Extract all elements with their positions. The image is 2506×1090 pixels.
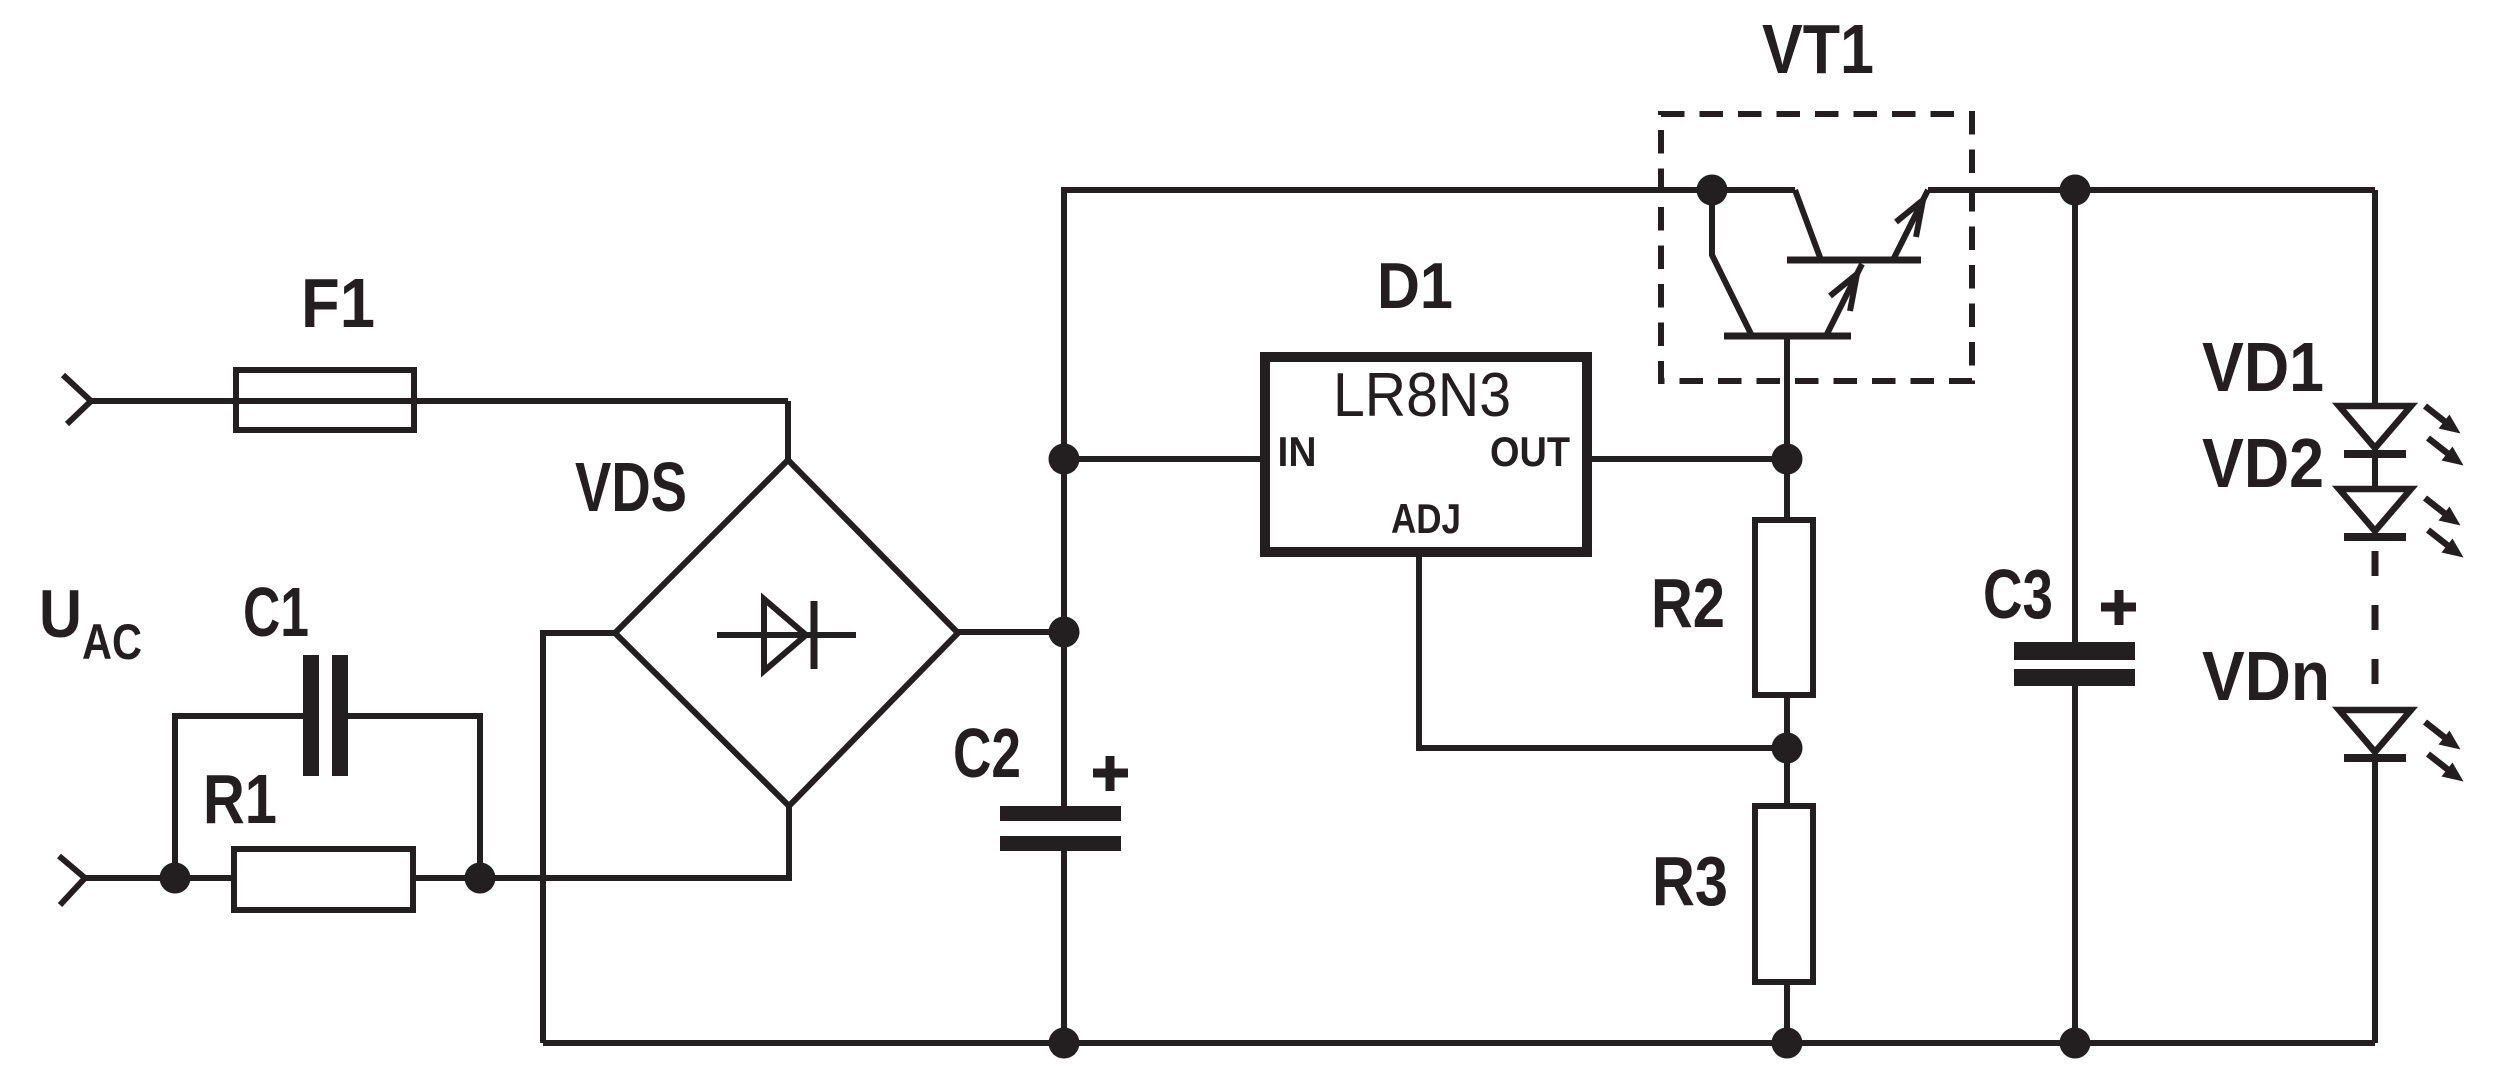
resistor R1 — [203, 760, 413, 910]
fuse F1 — [236, 264, 414, 430]
node R3 bottom rail — [1772, 1028, 1803, 1059]
wire ADJ pin — [1419, 552, 1787, 748]
regulator D1 LR8N3 — [1265, 249, 1587, 552]
svg-text:VDS: VDS — [575, 448, 687, 526]
resistor R2 — [1651, 458, 1813, 748]
capacitor C2 — [953, 714, 1128, 1043]
label UAC — [39, 576, 142, 670]
bottom rail — [543, 1040, 2375, 1046]
wire LED branch bottom — [2372, 762, 2378, 1043]
svg-text:C3: C3 — [1983, 555, 2053, 633]
svg-text:IN: IN — [1278, 428, 1317, 475]
node C3 bottom rail — [2060, 1028, 2091, 1059]
capacitor C1 — [175, 573, 480, 875]
svg-text:VD1: VD1 — [2202, 328, 2324, 406]
wire bridge left vertex to bottom rail — [543, 633, 615, 1043]
svg-text:LR8N3: LR8N3 — [1333, 361, 1511, 430]
svg-text:D1: D1 — [1377, 249, 1453, 322]
svg-text:VT1: VT1 — [1762, 10, 1874, 88]
node C2 bottom rail — [1049, 1028, 1080, 1059]
wire fuse to bridge top vertex — [785, 401, 791, 462]
resistor R3 — [1652, 748, 1813, 1043]
svg-text:VDn: VDn — [2202, 637, 2330, 715]
LED VD1 — [2202, 328, 2464, 466]
LED VDn — [2202, 637, 2464, 782]
node R1 right — [465, 863, 496, 894]
wire OUT pin — [1587, 456, 1787, 462]
node ADJ divider — [1772, 733, 1803, 764]
wire IN pin — [1064, 456, 1265, 462]
wire top rail right — [1928, 187, 2375, 193]
transistor VT1 — [1661, 10, 1972, 458]
svg-text:VD2: VD2 — [2202, 424, 2324, 502]
node bridge plus — [1049, 617, 1080, 648]
node VT1 collector — [1697, 175, 1728, 206]
dashed wire VD2 to VDn — [2372, 551, 2379, 705]
svg-text:OUT: OUT — [1490, 428, 1570, 475]
LED VD2 — [2202, 424, 2464, 558]
node IN — [1049, 444, 1080, 475]
wire bridge bottom vertex to R1 node — [480, 806, 789, 878]
svg-text:C1: C1 — [243, 573, 309, 651]
svg-text:ADJ: ADJ — [1391, 495, 1461, 542]
bridge rectifier VDS — [575, 448, 958, 806]
svg-text:AC: AC — [82, 614, 142, 670]
wire bridge right vertex to C2 node — [958, 629, 1064, 635]
wire R1 to bridge node — [413, 875, 480, 881]
wire AC input bottom to R1 — [82, 875, 236, 881]
wire VD1 to VD2 — [2372, 448, 2378, 489]
wire LED branch top — [2372, 190, 2378, 408]
svg-text:R1: R1 — [203, 760, 277, 838]
input terminal bottom — [59, 856, 85, 905]
svg-text:R2: R2 — [1651, 564, 1725, 642]
node OUT — [1772, 444, 1803, 475]
svg-text:R3: R3 — [1652, 842, 1728, 920]
input terminal top — [63, 375, 91, 424]
node R1 left — [160, 863, 191, 894]
capacitor C3 — [1983, 190, 2136, 1043]
wire AC input top to fuse — [88, 398, 788, 404]
svg-text:U: U — [39, 576, 82, 652]
wire C2 riser and top rail left — [1064, 190, 1795, 806]
svg-text:C2: C2 — [953, 714, 1021, 792]
svg-text:F1: F1 — [301, 264, 375, 342]
node C3 top — [2060, 175, 2091, 206]
